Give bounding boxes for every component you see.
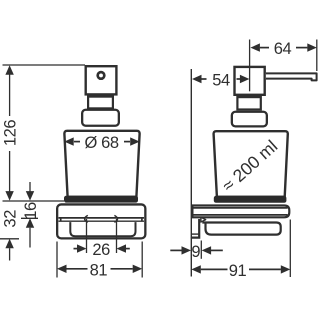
- shelf clip triangle: [201, 217, 206, 222]
- dimension 81 extension left: [56, 242, 58, 278]
- holder side tick left: [60, 218, 62, 221]
- dimension 91 left arrow: [191, 265, 201, 273]
- holder clip arc left: [85, 215, 88, 222]
- dimension 126 arrow up: [5, 65, 13, 75]
- glass bottom dark band side: [214, 196, 287, 203]
- dimension 32 arrow up: [5, 239, 13, 249]
- extension tick: shelf level: [21, 217, 38, 219]
- dimension 64 line right: [296, 47, 307, 49]
- svg-text:81: 81: [90, 261, 108, 279]
- dimension 9 extension right: [200, 241, 202, 259]
- dimension 54 inner line: [237, 78, 242, 80]
- dimension 26 right tail: [126, 248, 130, 250]
- glass body side: [214, 131, 288, 197]
- dimension 9 right tail: [211, 249, 223, 251]
- svg-text:16: 16: [22, 202, 40, 220]
- svg-text:Ø 68: Ø 68: [85, 134, 119, 152]
- svg-text:26: 26: [92, 241, 110, 259]
- wall hook inner line: [192, 233, 199, 235]
- holder inner opening: [70, 222, 135, 236]
- dimension 64 line left: [260, 47, 269, 49]
- holder clip arc right: [114, 215, 117, 222]
- dimension 91 line left: [201, 268, 228, 270]
- svg-text:64: 64: [274, 40, 292, 58]
- pump head front: [86, 66, 117, 94]
- holder shelf top line: [59, 217, 145, 219]
- dimension Ø68 right tail: [124, 141, 130, 143]
- dimension 91 extension right: [289, 220, 291, 278]
- svg-text:9: 9: [191, 243, 200, 261]
- dimension 32 lower tail: [9, 248, 11, 260]
- dimension Ø68 left tail: [74, 141, 80, 143]
- holder outer front: [57, 204, 145, 238]
- dimension 26 left tail: [74, 248, 78, 250]
- pump head hole: [98, 72, 105, 79]
- dimension 54 right arrow: [240, 75, 250, 83]
- dimension 16 upper tail: [29, 182, 31, 192]
- holder ring side: [202, 223, 280, 235]
- spout tube: [266, 73, 317, 80]
- holder shelf lower line: [59, 220, 145, 222]
- dimension 26 left arrow: [77, 244, 87, 252]
- svg-text:91: 91: [229, 262, 247, 280]
- dimension 16 lower tail: [29, 228, 31, 248]
- dimension 126 line upper segment: [9, 74, 11, 116]
- glass body front: [64, 131, 139, 197]
- spout tip extension line: [316, 40, 318, 72]
- extension tick: holder bottom level: [0, 238, 19, 240]
- dimension 81 right arrow: [133, 265, 143, 273]
- pump axis extension line: [249, 40, 251, 92]
- pump neck side: [237, 97, 260, 109]
- dimension 16 arrow down: [26, 191, 34, 201]
- glass bottom dark band front: [64, 196, 138, 203]
- dimension 126 arrow down: [5, 191, 13, 201]
- pump collar front: [82, 110, 119, 126]
- extension line: pump top level: [3, 64, 86, 66]
- wall hook: [191, 219, 199, 238]
- dimension 26 extension left: [86, 219, 88, 253]
- dimension 54 left tail: [201, 78, 206, 80]
- dimension 26 extension right: [116, 219, 118, 253]
- wall extension line: [190, 69, 192, 277]
- dimension 9 left tail: [170, 249, 182, 251]
- dimension 64 left arrow: [250, 43, 260, 51]
- shelf inner line top: [192, 207, 287, 209]
- pump collar side: [232, 112, 267, 127]
- shelf plate side: [192, 206, 289, 218]
- dimension 91 line right: [249, 268, 281, 270]
- dimension 81 extension right: [141, 242, 143, 278]
- dimension 26 right arrow: [117, 244, 127, 252]
- dimension Ø68 right arrow: [130, 137, 140, 145]
- dimension 9 right arrow: [202, 246, 212, 254]
- dimension 81 line right: [111, 268, 133, 270]
- dimension 91 right arrow: [281, 265, 291, 273]
- dimension 81 line left: [66, 268, 87, 270]
- shelf inner line bottom: [192, 214, 287, 216]
- dimension 54 left arrow: [192, 75, 202, 83]
- dimension 81 left arrow: [57, 265, 67, 273]
- svg-text:32: 32: [2, 210, 20, 228]
- dimension 64 right arrow: [307, 43, 317, 51]
- dimension 9 left arrow: [182, 246, 192, 254]
- svg-text:126: 126: [2, 120, 20, 147]
- dimension 126 line lower segment: [9, 151, 11, 192]
- extension line: holder top level: [3, 200, 65, 202]
- holder side tick right: [141, 218, 143, 221]
- svg-text:54: 54: [212, 72, 230, 90]
- dimension Ø68 left arrow: [64, 137, 74, 145]
- pump head side: [235, 67, 265, 95]
- pump neck front: [88, 97, 113, 109]
- dimension 16 arrow up: [26, 218, 34, 228]
